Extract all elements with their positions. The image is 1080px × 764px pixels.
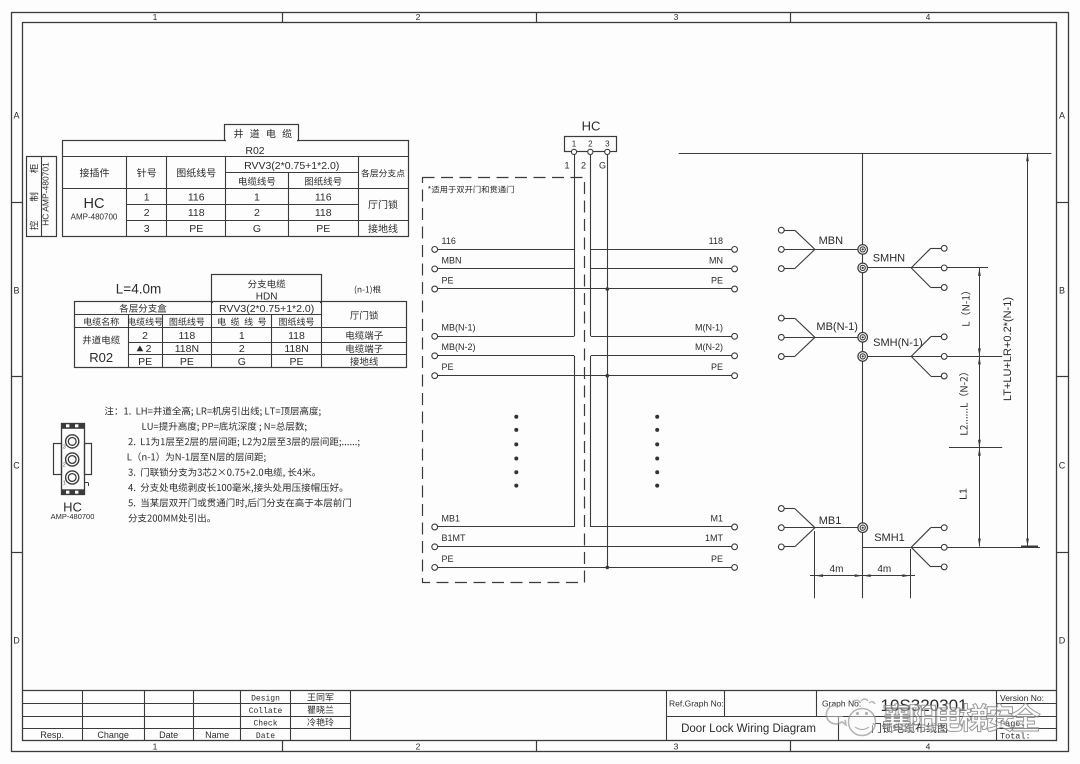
svg-text:M1: M1 [710, 513, 723, 523]
svg-text:C: C [1059, 461, 1066, 471]
svg-text:118: 118 [179, 330, 196, 342]
svg-text:PE: PE [711, 362, 723, 372]
svg-text:PE: PE [711, 554, 723, 564]
svg-text:1MT: 1MT [705, 533, 724, 543]
svg-text:L=4.0m: L=4.0m [116, 282, 161, 297]
svg-text:RVV3(2*0.75+1*2.0): RVV3(2*0.75+1*2.0) [244, 160, 339, 172]
svg-text:118: 118 [315, 207, 332, 219]
svg-text:HC: HC [84, 196, 105, 212]
svg-text:2: 2 [239, 343, 245, 355]
svg-text:SMHN: SMHN [873, 252, 905, 264]
svg-text:AMP-480700: AMP-480700 [51, 512, 95, 521]
svg-text:1: 1 [572, 139, 577, 148]
svg-text:L1: L1 [958, 488, 970, 500]
svg-text:HC AMP-480701: HC AMP-480701 [41, 162, 51, 226]
svg-text:PE: PE [442, 362, 454, 372]
svg-text:D: D [1059, 636, 1066, 646]
svg-text:B: B [13, 286, 19, 296]
svg-text:1: 1 [239, 330, 245, 342]
svg-text:2: 2 [588, 139, 593, 148]
svg-text:3: 3 [674, 12, 679, 22]
svg-text:3: 3 [144, 223, 150, 235]
svg-text:PE: PE [289, 356, 303, 368]
svg-text:2: 2 [63, 463, 66, 469]
svg-text:4m: 4m [877, 564, 891, 575]
svg-text:2: 2 [254, 207, 260, 219]
svg-text:118: 118 [288, 330, 305, 342]
svg-text:MB1: MB1 [442, 513, 461, 523]
svg-text:118N: 118N [284, 343, 308, 355]
svg-text:2: 2 [146, 343, 152, 355]
svg-text:G: G [253, 223, 261, 235]
svg-text:M(N-2): M(N-2) [695, 342, 723, 352]
svg-text:HC: HC [582, 119, 601, 134]
svg-text:D: D [13, 636, 20, 646]
svg-text:G: G [238, 356, 246, 368]
svg-text:4: 4 [926, 12, 931, 22]
svg-text:SMH(N-1): SMH(N-1) [873, 337, 923, 349]
svg-text:118: 118 [709, 236, 723, 246]
svg-text:116: 116 [442, 236, 456, 246]
svg-text:118N: 118N [175, 343, 199, 355]
svg-text:PE: PE [138, 356, 152, 368]
svg-text:C: C [13, 461, 20, 471]
svg-text:SMH1: SMH1 [874, 532, 905, 544]
svg-text:Date: Date [159, 730, 178, 740]
svg-text:A: A [13, 111, 19, 121]
svg-text:2: 2 [581, 161, 586, 171]
svg-text:Name: Name [205, 730, 229, 740]
svg-text:B: B [1059, 286, 1065, 296]
svg-text:M(N-1): M(N-1) [695, 323, 723, 333]
svg-text:MBN: MBN [442, 255, 462, 265]
svg-text:Check: Check [253, 719, 277, 728]
svg-text:118: 118 [188, 207, 205, 219]
svg-text:4m: 4m [830, 564, 844, 575]
svg-text:1: 1 [153, 12, 158, 22]
svg-text:Design: Design [251, 694, 280, 703]
svg-text:Total:: Total: [1000, 732, 1031, 742]
svg-text:MB1: MB1 [819, 515, 842, 527]
svg-text:2: 2 [416, 741, 421, 751]
svg-text:Resp.: Resp. [40, 730, 64, 740]
svg-text:MB(N-2): MB(N-2) [442, 342, 476, 352]
svg-text:3: 3 [63, 445, 66, 451]
svg-text:MN: MN [709, 255, 723, 265]
svg-text:HDN: HDN [256, 292, 278, 303]
svg-text:Ref.Graph No:: Ref.Graph No: [669, 699, 724, 709]
svg-text:PE: PE [180, 356, 194, 368]
svg-text:B1MT: B1MT [442, 533, 467, 543]
svg-text:Version No:: Version No: [1000, 693, 1044, 703]
svg-text:1: 1 [63, 481, 66, 487]
svg-text:3: 3 [605, 139, 610, 148]
svg-text:Door Lock Wiring Diagram: Door Lock Wiring Diagram [681, 723, 816, 735]
svg-text:R02: R02 [89, 350, 113, 365]
svg-text:LT+LU+LR+0.2*(N-1): LT+LU+LR+0.2*(N-1) [1002, 297, 1014, 401]
svg-text:PE: PE [442, 554, 454, 564]
svg-text:MB(N-1): MB(N-1) [442, 323, 476, 333]
svg-text:Change: Change [97, 730, 129, 740]
svg-text:RVV3(2*0.75+1*2.0): RVV3(2*0.75+1*2.0) [219, 303, 314, 315]
svg-text:1: 1 [254, 191, 260, 203]
svg-text:2: 2 [142, 330, 148, 342]
svg-text:Date: Date [256, 732, 275, 741]
svg-text:1: 1 [564, 161, 569, 171]
svg-text:1: 1 [153, 741, 158, 751]
svg-text:4: 4 [926, 741, 931, 751]
svg-text:116: 116 [188, 191, 205, 203]
svg-text:PE: PE [189, 223, 203, 235]
svg-text:2: 2 [416, 12, 421, 22]
svg-text:3: 3 [674, 741, 679, 751]
svg-text:116: 116 [315, 191, 332, 203]
svg-text:1: 1 [144, 191, 150, 203]
svg-text:MBN: MBN [819, 235, 844, 247]
svg-text:AMP-480700: AMP-480700 [71, 213, 118, 222]
svg-text:PE: PE [316, 223, 330, 235]
svg-text:Collate: Collate [249, 707, 283, 716]
svg-text:MB(N-1): MB(N-1) [816, 321, 858, 333]
svg-text:G: G [599, 161, 606, 171]
svg-text:R02: R02 [245, 145, 264, 157]
svg-text:PE: PE [442, 275, 454, 285]
svg-text:A: A [1059, 111, 1065, 121]
svg-text:2: 2 [144, 207, 150, 219]
svg-text:PE: PE [711, 275, 723, 285]
